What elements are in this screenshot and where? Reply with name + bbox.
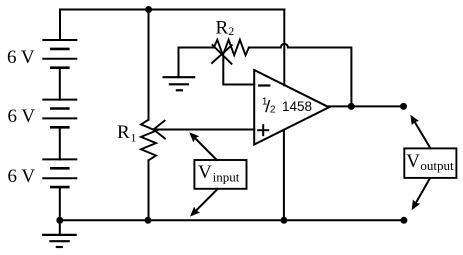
wire op-amp V+ supply from top rail [283,10,285,86]
wire op-amp V- supply to bottom rail [283,130,285,220]
node output terminal [400,103,407,110]
battery B1 6 V [43,40,76,68]
op-amp label 1/2 1458 [262,97,312,116]
svg-text:1458: 1458 [282,99,312,114]
arrow Vinput to bottom rail [190,189,218,217]
wire R1 wiper to op-amp noninverting input [154,129,255,131]
wire top rail from battery to V+ corner [60,10,284,41]
node R1 / bottom rail junction [145,217,152,224]
wire battery B3 to bottom rail [59,187,61,220]
arrow Voutput to output terminal [410,115,430,149]
wire R2 left lead to ground [179,48,214,78]
op-amp noninverting input plus symbol [258,125,268,135]
resistor R2 (potentiometer) [214,40,249,55]
resistor R1 (potentiometer) [141,120,156,161]
wire op-amp output [329,105,404,107]
node top rail / R1 junction [145,6,152,13]
svg-text:output: output [420,158,454,173]
svg-text:1: 1 [131,131,137,145]
R2 wiper arrow (X) [212,45,232,64]
wire R2 right lead with hop over supply wire [249,44,352,107]
R1 wiper arrowhead [154,121,166,139]
battery B3 6 V [43,159,76,187]
arrow Vinput to wiper wire [189,132,217,160]
wire R1 top lead [148,10,150,120]
resistor R1 label [117,122,137,145]
svg-text:R: R [216,17,229,38]
resistor R2 label [216,17,235,38]
Vinput label box [194,160,246,189]
node battery / ground junction [56,217,63,224]
wire battery B2 to B3 [59,127,61,159]
svg-text:2: 2 [228,24,234,38]
svg-text:R: R [117,122,130,143]
op-amp U1 triangle [254,70,329,145]
arrow Voutput to bottom terminal [412,179,430,211]
ground at R2 [164,77,195,90]
Voutput label box [404,148,456,178]
wire battery B1 to B2 [59,68,61,100]
svg-text:input: input [213,170,240,185]
svg-text:6 V: 6 V [7,47,35,68]
svg-text:2: 2 [270,105,276,116]
node V- supply / bottom rail junction [280,217,287,224]
node feedback / output junction [348,103,355,110]
svg-text:6 V: 6 V [8,166,36,187]
node bottom rail terminal [400,217,407,224]
wire R2 wiper to op-amp inverting input [223,57,254,85]
svg-text:6 V: 6 V [8,106,36,127]
svg-text:V: V [198,162,212,183]
wire R1 bottom lead [148,160,150,220]
svg-text:V: V [406,151,420,172]
battery B2 6 V [43,100,76,128]
wire bottom rail [60,219,404,221]
ground at battery [43,220,75,247]
op-amp inverting input minus symbol [259,84,269,86]
